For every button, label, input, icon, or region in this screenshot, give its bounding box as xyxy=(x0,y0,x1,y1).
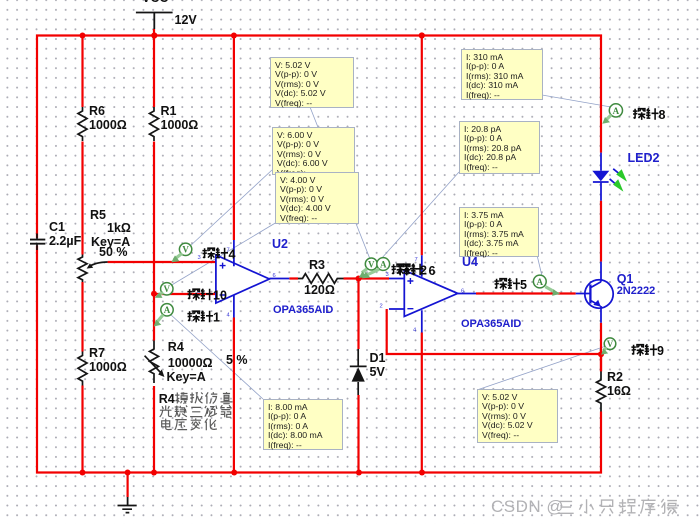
svg-text:V: V xyxy=(607,339,614,349)
svg-text:A: A xyxy=(380,259,387,269)
svg-text:V: V xyxy=(164,284,171,294)
svg-text:2: 2 xyxy=(380,304,383,310)
svg-text:V: V xyxy=(368,259,375,269)
svg-text:A: A xyxy=(164,305,171,315)
svg-text:3: 3 xyxy=(386,272,389,278)
svg-text:5: 5 xyxy=(520,278,527,292)
svg-text:4: 4 xyxy=(413,328,417,334)
svg-text:7: 7 xyxy=(415,257,418,263)
svg-text:2: 2 xyxy=(420,264,427,278)
svg-text:V: V xyxy=(182,245,189,255)
svg-text:4: 4 xyxy=(229,248,236,262)
svg-text:1: 1 xyxy=(213,311,220,325)
svg-text:6: 6 xyxy=(273,273,276,279)
svg-text:A: A xyxy=(613,106,620,116)
svg-text:6: 6 xyxy=(461,289,464,295)
svg-text:6: 6 xyxy=(429,264,436,278)
svg-text:8: 8 xyxy=(659,108,666,122)
svg-text:4: 4 xyxy=(227,313,231,319)
svg-text:3: 3 xyxy=(198,255,201,261)
svg-text:10: 10 xyxy=(213,289,227,303)
svg-text:9: 9 xyxy=(657,344,664,358)
svg-text:A: A xyxy=(537,277,544,287)
